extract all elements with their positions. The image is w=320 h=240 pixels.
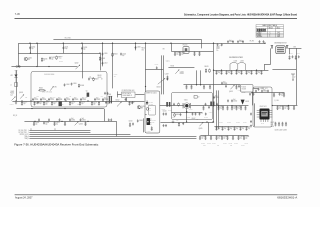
svg-text:C4006: C4006 [137, 47, 141, 49]
footer rule [15, 194, 298, 196]
capacitor botright x216.5 [215, 136, 217, 140]
svg-text:12p: 12p [238, 108, 241, 110]
capacitor chain2-high x59.5 [59, 118, 61, 121]
ground left input [15, 102, 17, 104]
svg-text:R4123: R4123 [242, 92, 246, 94]
svg-text:82p: 82p [230, 145, 232, 147]
svg-text:SHLD: SHLD [271, 126, 275, 128]
varactor arrow D4002 [117, 102, 122, 107]
capacitor inj x210 [209, 85, 211, 89]
note box [122, 92, 136, 98]
varactor arrow left [12, 97, 16, 101]
capacitor superfilter x261.5 [260, 70, 262, 74]
capacitor C4009 [71, 83, 73, 86]
svg-text:C4056: C4056 [212, 143, 216, 145]
svg-text:12p: 12p [81, 103, 84, 105]
wire LNA chain y101 [12, 100, 144, 102]
wire varactor branch x163.3 [162, 55, 164, 94]
wire control line 5 [29, 137, 196, 139]
svg-text:12p: 12p [230, 128, 233, 130]
wire collector drop x100 [99, 53, 101, 70]
svg-text:12p: 12p [176, 53, 179, 55]
svg-text:5R_RX: 5R_RX [250, 40, 255, 42]
transistor Q4006 arrow [75, 122, 79, 126]
capacitor inj x204 [203, 85, 205, 89]
VCO module U4025 [257, 109, 273, 123]
capacitor IF2 x222.5 [221, 126, 223, 130]
junction (221.5,70.2) [221, 70, 222, 71]
junction (145.5,86.5) [145, 86, 146, 87]
svg-text:12p: 12p [218, 72, 221, 74]
svg-text:C4058: C4058 [234, 143, 238, 145]
wire base net y66 [11, 65, 77, 67]
capacitor chain-low x52 [51, 101, 53, 105]
wire stub x30 [29, 43, 31, 53]
svg-text:D4003: D4003 [157, 87, 161, 89]
svg-text:C4107: C4107 [209, 111, 213, 113]
wire antenna feed y69.3 [272, 68, 296, 70]
svg-text:1K: 1K [149, 110, 151, 112]
svg-text:12p: 12p [242, 128, 245, 130]
svg-text:Q4035: Q4035 [199, 128, 203, 130]
svg-text:51: 51 [43, 60, 45, 62]
svg-text:C29: C29 [93, 104, 96, 106]
junction (272.3,105.5) [272, 105, 273, 106]
junction (66,101) [65, 100, 66, 101]
capacitor C4039 [156, 66, 158, 69]
svg-text:12p: 12p [71, 103, 74, 105]
inductor bridge L4032 [230, 62, 246, 70]
junction (22,101) [21, 100, 22, 101]
svg-text:R4102: R4102 [168, 110, 172, 112]
varactor arrow D4003 [158, 78, 165, 84]
svg-text:C24: C24 [53, 96, 56, 98]
page header left page number [15, 12, 21, 16]
svg-text:12p: 12p [107, 103, 110, 105]
svg-text:C4076: C4076 [289, 53, 293, 55]
capacitor IF x245.5 [244, 106, 246, 110]
wire drop x171 [170, 43, 172, 51]
capacitor C4091 [221, 43, 223, 46]
svg-text:6816532H01-A: 6816532H01-A [277, 196, 297, 200]
wire injection risers [196, 70, 200, 84]
mixer enclosure box [172, 93, 213, 120]
capacitor IF2 x240.5 [239, 126, 241, 130]
diode CR4001 arrow [50, 86, 53, 90]
wire drop x112.5 [111, 43, 113, 88]
junction (30.4,53.2) [30, 53, 31, 54]
svg-text:C4064: C4064 [129, 120, 133, 122]
svg-text:12p: 12p [83, 49, 86, 51]
wire antenna output y48.3 [288, 48, 301, 54]
diode VR4001 [14, 70, 17, 82]
svg-text:U4031: U4031 [238, 90, 242, 92]
svg-text:9p1: 9p1 [229, 40, 232, 42]
capacitor chain2-high x70 [69, 118, 71, 121]
svg-text:9p1: 9p1 [104, 98, 107, 100]
svg-text:C4016: C4016 [59, 56, 63, 58]
svg-text:12p: 12p [245, 137, 248, 139]
svg-text:12p: 12p [284, 107, 287, 109]
svg-text:12p: 12p [233, 108, 236, 110]
connector J4001 [16, 66, 20, 68]
svg-text:12p: 12p [218, 137, 221, 139]
capacitor C4037 [166, 76, 168, 80]
capacitor botright x227.5 [226, 136, 228, 140]
junction rail x37 [36, 43, 37, 44]
svg-text:C4057: C4057 [223, 143, 227, 145]
svg-text:C4053: C4053 [236, 122, 240, 124]
capacitor C4036 [258, 88, 260, 91]
capacitor mixer right pair [205, 103, 207, 106]
transistor Q4020 in shield [146, 108, 149, 111]
capacitor IF x236.5 [235, 106, 237, 110]
svg-text:12p: 12p [131, 103, 134, 105]
capacitor chain-high x65 [64, 98, 66, 101]
wire VCO supply y92.7 [252, 91, 284, 93]
svg-text:R4071: R4071 [271, 122, 275, 124]
wire control line 1 [29, 129, 90, 131]
mixer port block left [166, 102, 168, 107]
junction (236.5,70.2) [236, 70, 237, 71]
svg-text:12p: 12p [279, 107, 282, 109]
svg-text:R4108: R4108 [186, 117, 190, 119]
capacitor chain-low x99 [98, 101, 100, 105]
svg-text:C4112: C4112 [207, 143, 211, 145]
capacitor superfilter x221.5 [220, 70, 222, 74]
capacitor C4003 [49, 57, 51, 60]
capacitor C4096 pair [259, 40, 261, 43]
junction (49,66.5) [48, 66, 49, 67]
svg-text:R23: R23 [45, 104, 48, 106]
capacitor VCO x274 [273, 93, 275, 97]
capacitor C4010 [88, 78, 90, 81]
resistor R4007 [93, 77, 95, 81]
svg-text:12p: 12p [201, 137, 204, 139]
capacitor presel x180 [179, 52, 181, 56]
junction (207,122) [206, 121, 207, 122]
capacitor chain-low x44 [43, 101, 45, 105]
junction (65,108.5) [64, 108, 65, 109]
wire mixer secondary [171, 108, 202, 122]
svg-text:SYNTH_LOCK: SYNTH_LOCK [20, 134, 29, 136]
svg-text:12p: 12p [45, 123, 48, 125]
svg-text:12n: 12n [196, 119, 198, 121]
capacitor chain-high x41 [40, 98, 42, 101]
capacitor chain2-low x44 [43, 121, 45, 124]
wire drop x213.5 [212, 43, 214, 122]
svg-text:1K: 1K [101, 79, 103, 81]
svg-text:100p: 100p [65, 48, 68, 50]
junction (213.5,122) [213, 121, 214, 122]
wire right-section boundary [216, 90, 218, 129]
capacitor C4093 [232, 40, 234, 43]
capacitor chain-high x73 [72, 98, 74, 101]
svg-text:12p: 12p [240, 137, 243, 139]
svg-text:Schematics, Component Location: Schematics, Component Location Diagrams,… [184, 13, 297, 16]
antenna connector pin left [271, 45, 274, 48]
svg-text:Q4032: Q4032 [180, 71, 184, 73]
svg-text:T4104: T4104 [189, 109, 193, 111]
svg-text:9p1: 9p1 [215, 96, 218, 98]
capacitor IF2 x216.5 [215, 126, 217, 130]
junction rail x145.5 [145, 43, 146, 44]
svg-text:RXIN: RXIN [171, 65, 174, 67]
svg-text:C4105: C4105 [199, 113, 203, 115]
svg-text:Q2: Q2 [149, 108, 151, 110]
svg-text:C4005: C4005 [104, 53, 108, 55]
svg-text:NOTE: PLACE: NOTE: PLACE [122, 92, 131, 95]
footer date [15, 197, 33, 200]
svg-text:FL4002: FL4002 [242, 86, 247, 88]
capacitor C4008 [64, 83, 66, 86]
svg-text:RX_FE_CNTL_2: RX_FE_CNTL_2 [19, 132, 29, 134]
svg-text:C4031: C4031 [216, 46, 220, 48]
svg-text:12p: 12p [238, 72, 241, 74]
antenna test point [291, 74, 295, 80]
capacitor LO x294 [293, 106, 295, 110]
capacitor IF x223 [222, 106, 224, 110]
wire IF second row [214, 125, 248, 127]
svg-text:5R_CNTL: 5R_CNTL [65, 38, 72, 40]
antenna connector pin right [286, 45, 288, 48]
capacitor C4042 [231, 99, 233, 102]
svg-text:12p: 12p [53, 103, 56, 105]
IC U4022 in shield [146, 101, 148, 105]
junction rail x135.5 [135, 43, 136, 44]
svg-text:D4001: D4001 [10, 104, 14, 106]
svg-text:12p: 12p [218, 128, 221, 130]
junction (18.9,66.5) [18, 66, 19, 67]
wire stub x63.3 [62, 43, 64, 53]
svg-text:9p1: 9p1 [239, 40, 242, 42]
svg-text:C4008: C4008 [66, 84, 70, 86]
capacitor chain-high x81 [80, 98, 82, 101]
IC U4023 in shield [147, 118, 152, 125]
resistor R4004 [112, 53, 114, 57]
svg-text:T2: T2 [198, 97, 200, 99]
svg-text:L1: L1 [10, 84, 12, 86]
svg-text:C4077: C4077 [296, 53, 300, 55]
svg-text:27p: 27p [217, 145, 219, 147]
junction (200.6,84.8) [200, 84, 201, 85]
capacitor C4006 [135, 46, 137, 49]
svg-text:LNA U4001 BIAS: LNA U4001 BIAS [44, 73, 54, 76]
capacitor chain-low x22 [21, 101, 23, 105]
capacitor presel x175 [174, 52, 176, 56]
wire filter output y87.8 [253, 87, 258, 89]
svg-text:C4047: C4047 [192, 118, 196, 120]
capacitor IF2 x246.5 [245, 126, 247, 130]
capacitor botright x233 [232, 136, 234, 140]
svg-text:12p: 12p [51, 58, 54, 60]
capacitor superfilter x246.5 [245, 70, 247, 74]
capacitor VCO x279.5 [279, 93, 281, 96]
capacitor IF x218.5 [217, 106, 219, 110]
transistor Q4002 arrow [76, 65, 81, 69]
junction rail x213.5 [213, 43, 214, 44]
capacitor botright x244 [243, 136, 245, 140]
capacitor C4071 [261, 90, 263, 93]
junction (103,101) [102, 100, 103, 101]
svg-text:R4033: R4033 [205, 66, 209, 68]
capacitor C4044 pair [163, 113, 165, 116]
svg-text:L4103: L4103 [171, 116, 175, 118]
svg-text:C4012: C4012 [104, 62, 108, 64]
junction rail x112.5 [112, 43, 113, 44]
capacitor C4062 [125, 98, 127, 101]
svg-text:9p1: 9p1 [74, 98, 77, 100]
mixer core sub-circuit [148, 105, 155, 115]
svg-text:L26: L26 [69, 96, 71, 98]
svg-text:12p: 12p [248, 128, 251, 130]
svg-text:C4019: C4019 [98, 77, 102, 79]
junction (31,101) [30, 100, 31, 101]
capacitor C4064 pair [129, 123, 131, 127]
capacitor C4043 [213, 96, 215, 99]
svg-text:C4054: C4054 [243, 122, 247, 124]
svg-text:C4001: C4001 [10, 91, 14, 93]
capacitor C4109 [199, 113, 201, 116]
capacitor C4049 [182, 122, 184, 125]
wire VCO supply drop x252 [251, 92, 253, 105]
capacitor botright x200 [199, 136, 201, 140]
stub on line1 [30, 128, 32, 130]
svg-text:R4001: R4001 [10, 93, 14, 95]
junction (100,53.1) [99, 52, 100, 53]
wire VCO frame x254.5 [253, 103, 255, 126]
capacitor VCO-bot x282.5 [281, 122, 283, 126]
capacitor chain2-low x34 [33, 121, 35, 125]
svg-text:M9: M9 [141, 107, 143, 109]
svg-text:C4037: C4037 [165, 74, 169, 76]
junction (186.6,122) [186, 121, 187, 122]
revision table top right [256, 25, 284, 38]
svg-text:Q4002: Q4002 [75, 63, 79, 65]
svg-text:ANTENNA SWITCH: ANTENNA SWITCH [274, 41, 286, 44]
svg-text:R4017: R4017 [142, 48, 146, 50]
capacitor superfilter x241.5 [240, 70, 242, 74]
wire control line 3 [29, 133, 130, 135]
capacitor C4070 [255, 90, 257, 93]
resistor R4033 pair [205, 69, 207, 73]
svg-text:5R: 5R [163, 48, 166, 50]
svg-text:9p1: 9p1 [96, 98, 99, 100]
capacitor C4073 pair [249, 93, 251, 96]
svg-text:SUPERFILTER: SUPERFILTER [229, 57, 243, 59]
capacitor chain2-low x54.5 [53, 121, 55, 125]
svg-text:L4031: L4031 [216, 48, 220, 50]
svg-text:25-65: 25-65 [261, 123, 264, 125]
capacitor C4034 [221, 82, 223, 85]
wire control line 2 [29, 131, 90, 133]
junction (32,108.5) [31, 108, 32, 109]
svg-text:VR4302: VR4302 [257, 36, 263, 38]
svg-text:C4122: C4122 [149, 104, 153, 106]
capacitor inj x186.5 [185, 85, 187, 89]
capacitor chain-low x34.5 [33, 101, 35, 105]
wire superfilter net y70.2 [213, 69, 268, 71]
wire drop x102.5 [101, 43, 103, 66]
svg-text:U4031: U4031 [245, 101, 249, 103]
wire mixer bottom [160, 122, 213, 135]
svg-text:73.35M: 73.35M [242, 89, 246, 91]
capacitor C4092 [227, 40, 229, 43]
page header right title [184, 13, 297, 16]
svg-text:R4114: R4114 [245, 143, 249, 145]
antenna switch box [276, 46, 285, 54]
capacitor on stub x82 [81, 47, 83, 50]
junction rail x265 [264, 43, 265, 44]
svg-text:12p: 12p [228, 72, 231, 74]
capacitor botright x222 [221, 136, 223, 140]
capacitor C4040 [166, 78, 168, 81]
capacitor C4045 pair [163, 124, 165, 127]
capacitor chain2-low x85.5 [84, 121, 86, 125]
capacitor IF2 x234.5 [233, 126, 235, 130]
svg-text:T4001: T4001 [184, 99, 188, 101]
svg-text:12p: 12p [56, 123, 59, 125]
wire IF out of shield [159, 104, 183, 106]
svg-text:5R_VCO: 5R_VCO [262, 88, 267, 90]
junction (196.5,84.8) [196, 84, 197, 85]
pad circle [172, 121, 174, 123]
svg-text:27n: 27n [216, 50, 218, 52]
svg-text:L4033: L4033 [240, 61, 244, 63]
junction (232,105.8) [231, 105, 232, 106]
wire second chain y121.4 [24, 121, 116, 136]
svg-text:J2: J2 [294, 77, 296, 79]
svg-text:R4004: R4004 [114, 54, 118, 56]
capacitor C4012 [102, 62, 104, 65]
capacitor botright x205.5 [204, 136, 206, 140]
capacitor chain2-high x39 [38, 118, 40, 121]
svg-text:C4113: C4113 [229, 143, 233, 145]
transistor Q4001 [24, 57, 27, 60]
svg-text:33p: 33p [176, 119, 178, 121]
junction (252,92.7) [251, 92, 252, 93]
svg-text:330: 330 [142, 49, 144, 51]
capacitor C4110 [205, 113, 207, 116]
wire stub x37 [36, 43, 38, 66]
transistor Q4003 arrow [20, 94, 24, 98]
capacitor superfilter x216.5 [215, 70, 217, 74]
svg-text:12p: 12p [236, 128, 239, 130]
capacitor C4061 [132, 101, 134, 104]
capacitor C4060 [128, 101, 130, 105]
wire second front-end y67.5 [168, 66, 194, 68]
junction rail x102.5 [102, 43, 103, 44]
capacitor superfilter x236.5 [235, 70, 237, 74]
capacitor IF-left pair [202, 106, 204, 110]
svg-text:C21: C21 [25, 96, 28, 98]
junction rail x82 [81, 43, 82, 44]
resistor R4003 [99, 57, 101, 61]
svg-text:C4090: C4090 [219, 44, 223, 46]
svg-text:10K: 10K [271, 124, 273, 126]
header rule [15, 17, 298, 19]
svg-text:100p: 100p [203, 145, 206, 147]
capacitor VCO-bot x275.5 [274, 122, 276, 126]
svg-text:7-36: 7-36 [15, 12, 21, 16]
capacitor VCO x284 [283, 93, 285, 97]
wire stub x82 [81, 43, 83, 78]
inductor L4001 [15, 83, 18, 87]
capacitor on stub x63.3 [62, 46, 64, 49]
svg-text:L4032: L4032 [234, 61, 238, 63]
injection filter box FL4002 [241, 85, 254, 93]
svg-text:12p: 12p [31, 48, 34, 50]
